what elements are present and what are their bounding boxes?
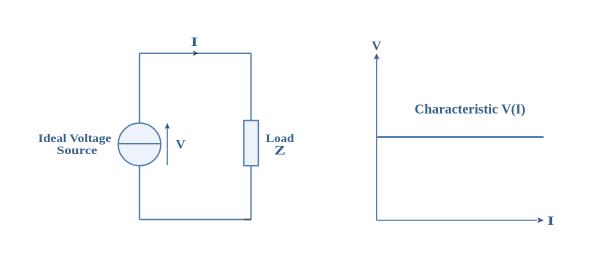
wire left segment upper (top corner to source top) [139,53,141,123]
voltage arrowhead [165,123,170,129]
current arrowhead on top wire [193,51,198,57]
wire top segment of loop [140,52,252,54]
dark segment at bottom-right corner [244,219,251,221]
svg-text:I: I [191,34,198,49]
voltage arrow shaft [166,128,168,166]
svg-text:I: I [547,213,554,228]
svg-text:Characteristic V(I): Characteristic V(I) [415,101,526,116]
wire left segment lower (source bottom to bottom corner) [139,166,141,220]
graph I axis [377,219,537,221]
graph V axis [376,58,378,221]
svg-text:V: V [176,137,186,152]
characteristic V(I) horizontal line [377,136,543,138]
wire bottom segment of loop [140,219,252,221]
wire right segment lower (load bottom to bottom corner) [250,166,252,220]
voltage source circle [118,123,161,166]
graph I axis arrowhead [537,217,544,223]
svg-text:Z: Z [274,142,286,157]
graph V axis arrowhead [374,53,380,59]
wire right segment upper (top corner to load top) [250,53,252,120]
voltage source chord line [118,143,161,145]
load resistor Z body [244,121,259,166]
svg-text:Source: Source [57,143,98,157]
svg-text:V: V [372,38,382,53]
